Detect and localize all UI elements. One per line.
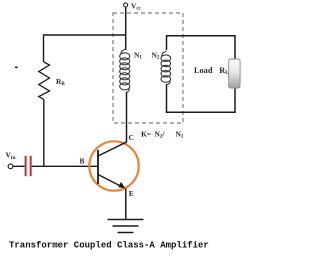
transistor Q1 orange circle <box>89 141 138 190</box>
inductor N2 secondary coil <box>161 51 171 84</box>
svg-text:RL: RL <box>219 66 229 76</box>
wire RB to base wire <box>43 100 45 167</box>
wire emitter down to ground <box>125 189 127 220</box>
svg-text:Vcc: Vcc <box>131 2 142 12</box>
wire Vin to capacitor <box>13 165 24 167</box>
inductor N1 primary coil <box>120 49 130 92</box>
wire capacitor to base <box>32 165 98 167</box>
resistor RB <box>39 62 50 100</box>
wire Vcc down to primary coil <box>125 7 127 50</box>
node Vin terminal <box>8 164 13 169</box>
svg-text:E: E <box>129 189 134 198</box>
transistor emitter stroke with arrow <box>98 175 121 187</box>
svg-text:RB: RB <box>56 77 65 87</box>
transistor Q1 base bar <box>97 150 99 184</box>
svg-text:N1: N1 <box>134 51 142 61</box>
transistor collector stroke <box>98 142 127 156</box>
svg-text:B: B <box>80 157 85 166</box>
wire secondary loop <box>167 36 236 113</box>
svg-text:K=: K= <box>141 130 151 139</box>
wire collector up to primary coil <box>126 92 128 142</box>
node Vcc terminal <box>124 3 128 7</box>
svg-text:Vin: Vin <box>6 151 16 161</box>
wire top rail <box>44 35 127 62</box>
svg-text:N2/: N2/ <box>155 130 166 140</box>
capacitor C1 <box>25 156 27 176</box>
dashed transformer box <box>113 13 183 123</box>
ground <box>108 219 144 221</box>
svg-text:C: C <box>129 133 134 142</box>
svg-text:Load: Load <box>194 66 213 75</box>
svg-text:Transformer Coupled Class-A Am: Transformer Coupled Class-A Amplifier <box>9 241 209 251</box>
svg-text:N2: N2 <box>152 51 160 61</box>
svg-text:N1: N1 <box>176 130 184 140</box>
stray dot <box>15 66 18 68</box>
